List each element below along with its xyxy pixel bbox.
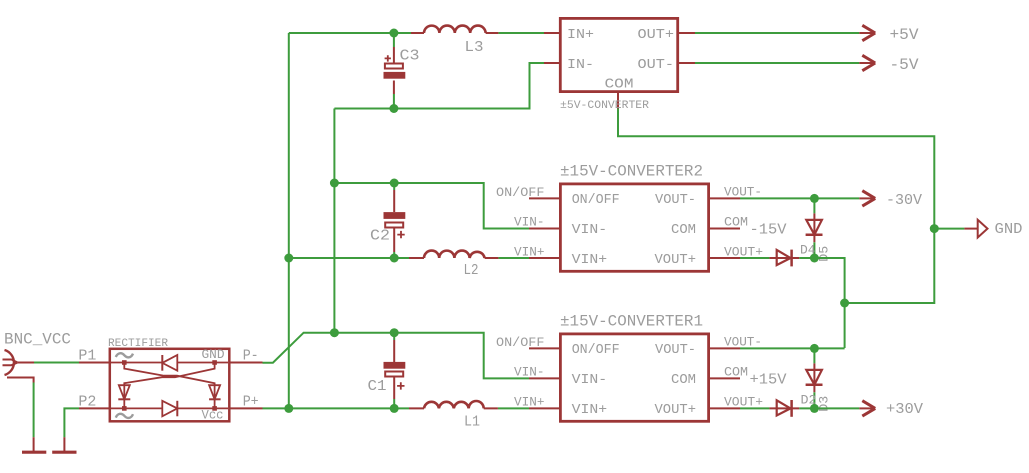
rectifier diode right vertical bbox=[214, 385, 216, 408]
svg-text:VOUT-: VOUT- bbox=[724, 185, 762, 200]
converter U3 +-5V box bbox=[544, 18, 695, 112]
svg-text:VOUT+: VOUT+ bbox=[655, 253, 697, 268]
inductor L2 bbox=[409, 251, 498, 279]
node junction D4/D5 bbox=[810, 254, 819, 263]
svg-text:VIN+: VIN+ bbox=[572, 253, 608, 268]
diode D2 bbox=[769, 393, 816, 417]
wire VIN+ conv2 row y=258 bbox=[289, 257, 529, 259]
pin COM stub conv2 bbox=[709, 228, 740, 230]
svg-text:L3: L3 bbox=[465, 39, 484, 56]
node junction GND arrow bbox=[930, 224, 939, 233]
converter U2 +-15V-CONVERTER2 box bbox=[496, 163, 763, 272]
svg-text:L2: L2 bbox=[464, 262, 479, 279]
pin IN+ stub bbox=[544, 32, 560, 34]
ground GND1 bbox=[22, 437, 46, 452]
svg-text:OUT-: OUT- bbox=[638, 58, 675, 73]
svg-text:C3: C3 bbox=[400, 48, 420, 65]
pin VIN+ stub conv2 bbox=[529, 257, 560, 259]
svg-text:P1: P1 bbox=[78, 348, 96, 365]
wire conv2 feed bus y=183 bbox=[334, 183, 529, 229]
wire IN+ green after L3 bbox=[498, 32, 544, 34]
capacitor C3 bbox=[384, 33, 420, 109]
ac glyph bottom bbox=[116, 414, 133, 418]
node junction D5 top bbox=[810, 194, 819, 203]
flag +30V arrow bbox=[859, 401, 923, 418]
svg-text:-15V: -15V bbox=[750, 222, 787, 239]
svg-text:VOUT+: VOUT+ bbox=[724, 395, 763, 410]
svg-text:VOUT+: VOUT+ bbox=[655, 403, 697, 418]
svg-text:ON/OFF: ON/OFF bbox=[496, 185, 544, 200]
wire IN- bus y=108.5 bbox=[334, 63, 544, 109]
svg-text:ON/OFF: ON/OFF bbox=[572, 343, 620, 358]
diode D3 vertical bbox=[806, 348, 832, 411]
svg-text:L1: L1 bbox=[464, 414, 480, 431]
svg-text:COM: COM bbox=[671, 223, 696, 238]
svg-text:±15V-CONVERTER1: ±15V-CONVERTER1 bbox=[560, 313, 703, 331]
node junction P+ y258 bbox=[284, 254, 293, 263]
capacitor C1 bbox=[368, 333, 406, 409]
pin VIN+ stub conv1 bbox=[529, 407, 560, 409]
wire OUT+ to +5V bbox=[695, 32, 859, 34]
pin VIN- stub conv2 bbox=[529, 228, 560, 230]
pin VOUT+ stub conv1 bbox=[709, 407, 740, 409]
rectifier junction squares bbox=[122, 360, 127, 365]
rectifier B1 bbox=[78, 338, 262, 422]
inductor L3 bbox=[411, 26, 498, 56]
node junction C1 bottom bbox=[390, 404, 399, 413]
svg-text:P2: P2 bbox=[78, 393, 96, 410]
wire OUT- to -5V bbox=[695, 62, 859, 64]
node junction x334 y333 bbox=[330, 328, 339, 337]
flag GND bbox=[964, 220, 1022, 238]
node junction P+ y408 left bbox=[284, 404, 293, 413]
svg-text:VIN-: VIN- bbox=[514, 365, 545, 380]
svg-text:VIN-: VIN- bbox=[514, 215, 545, 230]
svg-text:GND: GND bbox=[995, 221, 1023, 238]
svg-text:COM: COM bbox=[605, 78, 634, 93]
svg-text:OUT+: OUT+ bbox=[638, 28, 675, 43]
pin ON/OFF stub conv1 bbox=[529, 347, 560, 349]
rectifier diode top (points left) bbox=[162, 355, 177, 371]
svg-text:COM: COM bbox=[724, 365, 748, 380]
svg-text:+5V: +5V bbox=[890, 26, 919, 44]
wire P+ left vertical x=288.8 bbox=[288, 33, 290, 408]
pin COM stub conv1 bbox=[709, 377, 740, 379]
wire P- bus y=333 bbox=[263, 333, 530, 379]
svg-text:GND: GND bbox=[202, 347, 225, 362]
capacitor C2 bbox=[370, 183, 405, 258]
diode D4 bbox=[769, 243, 815, 267]
svg-text:P+: P+ bbox=[243, 393, 259, 410]
pin VOUT+ stub conv2 bbox=[709, 257, 740, 259]
wire P+ top bus y=33 bbox=[289, 32, 411, 34]
pin VOUT- stub conv1 bbox=[709, 347, 740, 349]
wire VOUT- conv2 to -30V bbox=[740, 197, 859, 199]
svg-text:-5V: -5V bbox=[890, 56, 919, 74]
svg-text:IN-: IN- bbox=[567, 58, 594, 73]
svg-text:VIN+: VIN+ bbox=[514, 395, 545, 410]
inductor L1 bbox=[409, 401, 498, 431]
svg-text:+15V: +15V bbox=[750, 372, 787, 389]
pin OUT+ stub bbox=[678, 32, 695, 34]
wire minus vertical x=334.4 bbox=[333, 109, 335, 333]
svg-text:±15V-CONVERTER2: ±15V-CONVERTER2 bbox=[560, 163, 703, 181]
wire P1 bbox=[34, 362, 79, 364]
node junction C2 top bbox=[390, 179, 399, 188]
rectifier diode left vertical bbox=[123, 385, 125, 408]
pin P2 stub bbox=[79, 407, 110, 409]
svg-text:VOUT-: VOUT- bbox=[655, 193, 696, 208]
pin OUT- stub bbox=[678, 62, 695, 64]
node junction D2/D3 bbox=[810, 404, 819, 413]
svg-text:P-: P- bbox=[243, 348, 259, 365]
svg-text:VOUT-: VOUT- bbox=[655, 343, 696, 358]
node junction C1 top bbox=[390, 328, 399, 337]
pin VOUT- stub conv2 bbox=[709, 197, 740, 199]
flag +5V arrow bbox=[859, 25, 919, 44]
svg-text:C1: C1 bbox=[368, 378, 387, 395]
svg-text:ON/OFF: ON/OFF bbox=[496, 335, 544, 350]
pin VIN- stub conv1 bbox=[529, 377, 560, 379]
svg-text:COM: COM bbox=[724, 215, 748, 230]
svg-text:COM: COM bbox=[671, 373, 696, 388]
pin IN- stub bbox=[544, 62, 560, 64]
pin ON/OFF stub conv2 bbox=[529, 197, 560, 199]
node junction C3 top bbox=[389, 29, 398, 38]
wire link vertical x=844.6 bbox=[844, 303, 846, 348]
node junction C3 bottom bbox=[389, 104, 398, 113]
wire COM net to GND column bbox=[618, 109, 934, 304]
node junction C2 bottom bbox=[390, 254, 399, 263]
pin P+ stub bbox=[229, 407, 263, 409]
pin P- stub bbox=[229, 362, 263, 364]
ac glyph top bbox=[116, 353, 133, 357]
wire P2 left bbox=[64, 408, 79, 437]
rectifier diode bottom (points right) bbox=[162, 401, 177, 417]
svg-text:ON/OFF: ON/OFF bbox=[572, 193, 620, 208]
node junction D3 top bbox=[810, 344, 819, 353]
rectifier cross wires bbox=[124, 363, 214, 386]
pin COM stub bbox=[617, 92, 619, 109]
svg-text:VIN-: VIN- bbox=[572, 373, 608, 388]
wire VOUT+ conv1 row bbox=[740, 407, 859, 409]
svg-text:IN+: IN+ bbox=[567, 28, 594, 43]
svg-text:+30V: +30V bbox=[886, 401, 923, 418]
node junction x334 y183 bbox=[330, 179, 339, 188]
wire VOUT- conv1 row bbox=[740, 347, 845, 349]
node junction link y303 bbox=[840, 299, 849, 308]
pin P1 stub bbox=[79, 362, 110, 364]
diode D5 vertical bbox=[806, 198, 832, 261]
svg-text:VOUT-: VOUT- bbox=[724, 335, 762, 350]
connector X1 BNC_VCC bbox=[3, 331, 72, 383]
wire BNC shield to ground bbox=[33, 383, 35, 438]
svg-text:BNC_VCC: BNC_VCC bbox=[4, 331, 71, 349]
converter U1 +-15V-CONVERTER1 box bbox=[496, 313, 763, 422]
flag -30V arrow bbox=[859, 191, 922, 209]
wire VOUT+ conv2 row bbox=[740, 258, 845, 303]
rectifier internal wires bbox=[111, 363, 228, 409]
svg-text:VIN-: VIN- bbox=[572, 223, 608, 238]
svg-text:VIN+: VIN+ bbox=[514, 245, 545, 260]
svg-text:VIN+: VIN+ bbox=[572, 403, 608, 418]
svg-text:D5: D5 bbox=[817, 246, 832, 262]
svg-text:±5V-CONVERTER: ±5V-CONVERTER bbox=[560, 100, 649, 112]
svg-text:C2: C2 bbox=[370, 228, 390, 245]
wire GND arrow stub bbox=[934, 228, 964, 230]
ground GND2 bbox=[52, 437, 76, 452]
wire P+ row y=408.4 bbox=[263, 407, 530, 409]
flag -5V arrow bbox=[859, 55, 919, 74]
svg-text:-30V: -30V bbox=[886, 192, 922, 209]
